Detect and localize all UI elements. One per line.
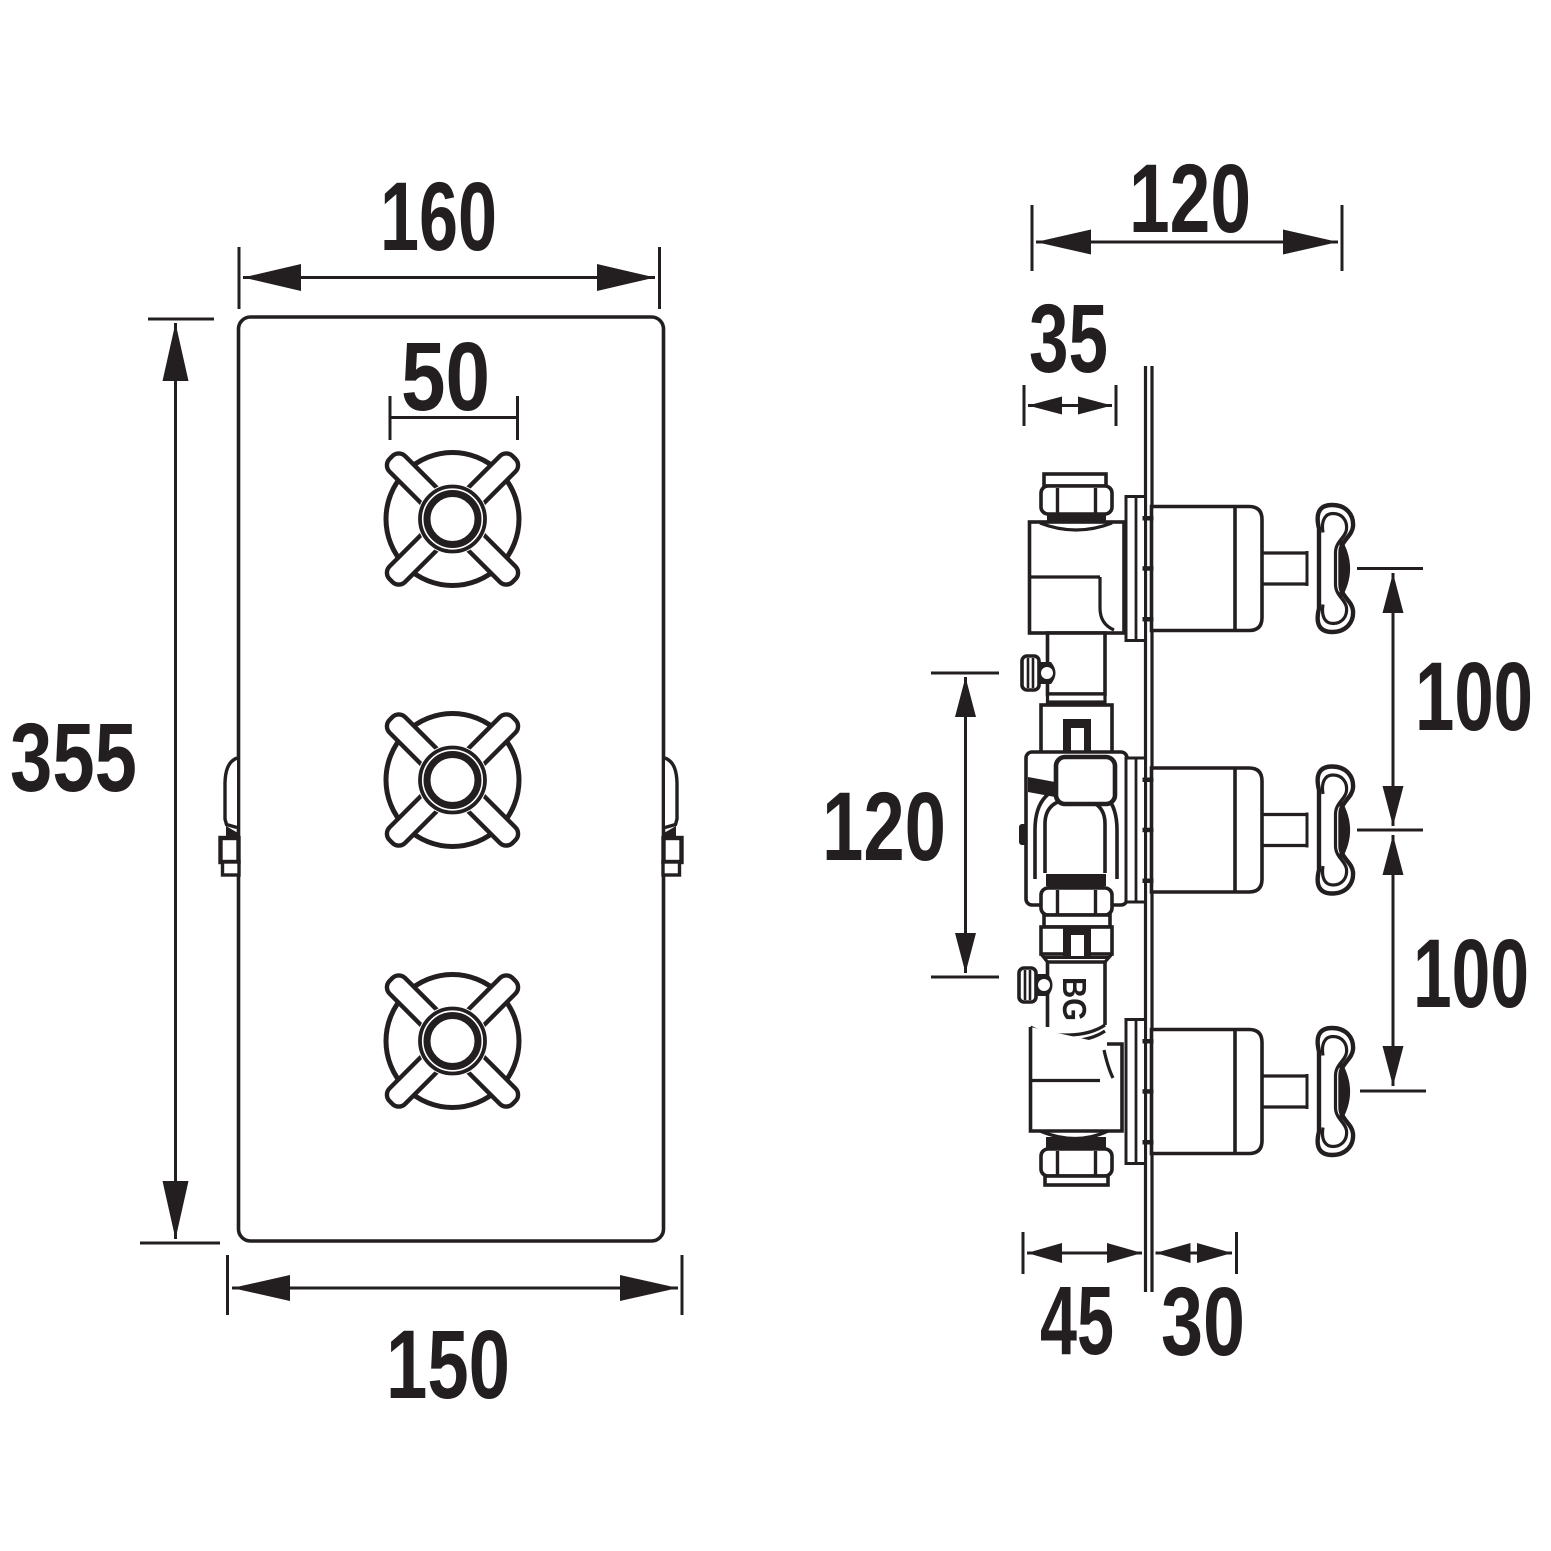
bottom outlet body block: [1031, 1025, 1123, 1139]
svg-text:45: 45: [1040, 1266, 1114, 1375]
upper valve body block: [1030, 522, 1125, 633]
svg-text:30: 30: [1161, 1267, 1245, 1376]
cartridge+flange+stem+knob BOTTOM (cy=1091.5): [1126, 1020, 1353, 1164]
dimension 150 (bottom width): [228, 1255, 683, 1315]
dimension 160 (top width): [239, 247, 660, 309]
bottom compression nut: [1041, 1137, 1112, 1185]
upper collar and clip block: [1041, 694, 1112, 757]
wall plate (side view, double line): [1144, 366, 1147, 1292]
front plate: [239, 317, 664, 1241]
mounting tab right: [663, 758, 682, 875]
svg-text:120: 120: [822, 772, 946, 881]
thermostatic mixer block: [1019, 752, 1127, 905]
mounting tab left: [221, 758, 240, 875]
cartridge+flange+stem+knob TOP (cy=568.5): [1126, 497, 1353, 641]
dimension 120 (side top width): [1032, 205, 1342, 271]
dimension 30 (depth in front of wall): [1156, 1232, 1237, 1274]
dimension 120 (left vertical, drain cock pitch): [931, 673, 999, 977]
handle H3 (bottom cross handle): [383, 972, 522, 1111]
dimension 45 (depth behind wall): [1023, 1232, 1142, 1274]
dimension 50 (handle pitch): [390, 396, 518, 440]
svg-text:100: 100: [1413, 919, 1529, 1028]
svg-text:BG: BG: [1056, 977, 1093, 1021]
lower drain cock: [1019, 968, 1053, 1002]
svg-text:50: 50: [401, 322, 490, 431]
upper drain cock: [1022, 656, 1056, 690]
svg-text:160: 160: [380, 162, 497, 271]
dimension 35 (body offset): [1024, 385, 1116, 426]
svg-text:150: 150: [386, 1310, 510, 1419]
dimension 100 (lower stem pitch): [1360, 835, 1426, 1091]
svg-text:100: 100: [1415, 642, 1533, 751]
handle H2 (middle cross handle): [383, 711, 522, 850]
middle hex nut: [1041, 888, 1112, 927]
dimension 355 (plate height): [140, 319, 220, 1243]
handle H1 (top cross handle): [383, 450, 522, 589]
cartridge+flange+stem+knob MIDDLE (cy=830): [1126, 758, 1353, 902]
top inlet compression nut: [1041, 474, 1112, 527]
upper neck tube: [1048, 633, 1106, 694]
middle clip block: [1041, 927, 1112, 962]
dimension 100 (upper stem pitch): [1357, 569, 1423, 831]
lower neck tube with BG mark: [1044, 958, 1108, 1028]
svg-text:35: 35: [1029, 284, 1108, 393]
svg-text:355: 355: [10, 703, 137, 812]
svg-text:120: 120: [1129, 144, 1251, 253]
